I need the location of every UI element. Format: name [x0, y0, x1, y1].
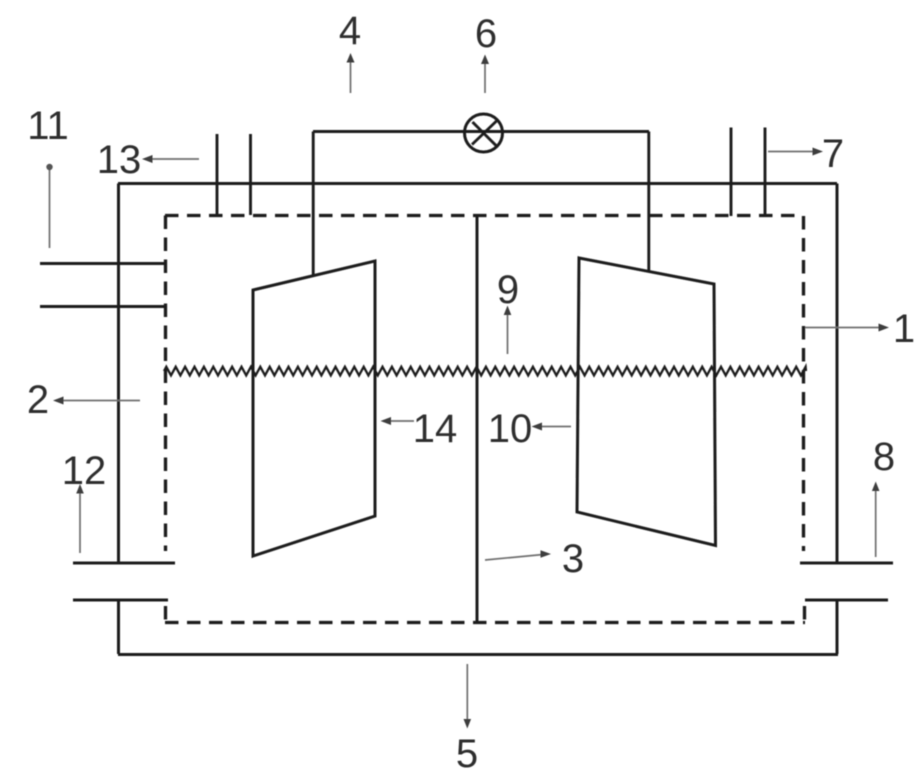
- svg-text:8: 8: [873, 435, 895, 479]
- inner dashed enclosure top edge: [165, 214, 803, 217]
- arrowhead for label 1: [879, 324, 890, 332]
- leader line for label 8: [875, 488, 877, 557]
- leader line for label 4: [350, 61, 352, 93]
- inner dashed enclosure right edge upper segment: [802, 216, 805, 551]
- arrowhead for label 5: [464, 719, 472, 729]
- leader line for label 5: [466, 664, 468, 722]
- svg-text:12: 12: [62, 449, 107, 493]
- inlet stub pipe 13 left tube: [216, 134, 219, 215]
- outer vessel wall right edge upper segment: [836, 184, 839, 563]
- outer vessel wall left edge upper segment: [117, 184, 120, 563]
- svg-text:6: 6: [475, 12, 497, 56]
- arrowhead for label 8: [872, 482, 880, 492]
- center partition wall 3: [476, 216, 479, 624]
- inner dashed enclosure left edge lower stub: [164, 606, 167, 622]
- svg-text:5: 5: [456, 732, 478, 769]
- leader line for label 9: [507, 312, 509, 354]
- inlet stub pipe 13 right tube: [249, 134, 252, 215]
- leader line for label 7: [768, 151, 815, 153]
- svg-text:10: 10: [488, 407, 533, 451]
- leader line for label 3: [485, 555, 543, 561]
- outer vessel wall top edge: [118, 182, 837, 185]
- drain port 12 upper pipe line: [73, 562, 175, 565]
- inner dashed enclosure bottom edge: [165, 621, 805, 624]
- leader line for label 13: [150, 158, 199, 160]
- leader line for label 10: [539, 426, 571, 428]
- leader line for label 12: [79, 489, 81, 553]
- leader line for label 2: [60, 400, 140, 402]
- outlet stub pipe 7 right tube: [764, 128, 767, 217]
- side port 11 lower pipe line: [40, 305, 167, 308]
- outer vessel wall bottom edge: [118, 653, 838, 656]
- arrowhead for label 9: [504, 306, 512, 316]
- svg-text:11: 11: [27, 104, 69, 148]
- side port 11 upper pipe line: [40, 262, 167, 265]
- dot head for label 11 leader: [46, 164, 52, 170]
- arrowhead for label 4: [347, 53, 355, 63]
- drain port 8 upper pipe line: [800, 562, 893, 565]
- arrowhead for label 6: [481, 55, 489, 65]
- leader line for label 6: [484, 62, 486, 93]
- valve 6 cross diagonal 2: [472, 121, 497, 145]
- outer vessel wall right edge lower segment: [836, 602, 839, 655]
- left riser from rotor 14 to valve line: [312, 132, 315, 277]
- outer vessel wall left edge lower segment: [117, 602, 120, 655]
- turbine rotor 14 (left trapezoid): [253, 261, 375, 556]
- svg-text:9: 9: [497, 268, 519, 312]
- leader line for label 11: [49, 170, 51, 248]
- connecting pipe 4 (horizontal valve line): [313, 130, 649, 133]
- heating element zigzag 9: [164, 367, 806, 376]
- arrowhead for label 10: [532, 423, 543, 431]
- arrowhead for label 14: [381, 417, 392, 425]
- arrowhead for label 2: [53, 397, 64, 405]
- outlet stub pipe 7 left tube: [730, 128, 733, 217]
- arrowhead for label 7: [813, 148, 824, 156]
- right riser from rotor 10 to valve line: [647, 132, 650, 273]
- arrowhead for label 12: [76, 484, 84, 494]
- inner dashed enclosure right edge lower stub: [803, 606, 806, 622]
- arrowhead for label 3: [541, 550, 552, 558]
- svg-text:3: 3: [562, 537, 584, 581]
- valve 6 cross diagonal 1: [473, 122, 497, 146]
- svg-text:2: 2: [27, 378, 49, 422]
- valve 6 body circle: [465, 114, 503, 152]
- leader line for label 14: [388, 420, 414, 422]
- inner dashed enclosure left edge upper segment: [164, 216, 167, 552]
- svg-text:13: 13: [97, 138, 142, 182]
- drain port 12 lower pipe line: [73, 599, 168, 602]
- svg-text:14: 14: [413, 407, 458, 451]
- svg-text:4: 4: [339, 9, 361, 53]
- svg-text:1: 1: [893, 307, 915, 351]
- svg-text:7: 7: [822, 132, 844, 176]
- turbine rotor 10 (right trapezoid): [577, 258, 716, 546]
- arrowhead for label 13: [142, 155, 153, 163]
- leader line for label 1: [805, 327, 881, 329]
- drain port 8 lower pipe line: [805, 599, 888, 602]
